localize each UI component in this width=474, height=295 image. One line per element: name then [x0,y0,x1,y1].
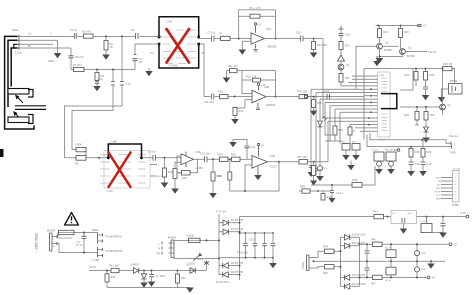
ground [231,119,239,124]
svg-text:GND: GND [48,59,54,63]
resistor R24 [424,72,428,81]
resistor R31 [173,169,177,179]
svg-text:Q3: Q3 [346,63,350,67]
svg-text:1.10A: 1.10A [15,51,22,55]
wire SIG line [370,133,451,143]
svg-text:U5B: U5B [270,154,275,158]
ground [342,155,350,160]
svg-text:R40: R40 [111,275,116,279]
deletion cross X1 [167,29,190,63]
svg-text:4700u 63V: 4700u 63V [237,253,249,255]
svg-text:R47: R47 [371,282,376,286]
module top ground arrow [376,56,378,61]
capacitor C26a [245,233,247,258]
svg-text:C16: C16 [345,33,350,37]
pin tick 1 [18,35,20,39]
connector shield tab [0,149,4,157]
svg-text:R24: R24 [430,73,435,77]
electrolytic C18 [410,147,412,149]
warning triangle [65,213,79,226]
resistor R47 [373,275,383,279]
ground [329,198,336,203]
rail 2 [400,106,439,108]
svg-text:C.1u: C.1u [372,148,378,152]
svg-text:D.TY 5A: D.TY 5A [216,210,226,214]
diode D10 [341,236,360,238]
svg-text:C.1u: C.1u [98,77,104,81]
svg-text:SIG out: SIG out [449,134,458,138]
feedback loop U5A [177,156,198,173]
capacitor C24 [245,146,250,148]
ground below U1 [148,68,150,71]
svg-text:LT 1u: LT 1u [76,243,83,247]
non-inverting network [237,100,252,108]
switch S1b bracket [28,115,33,124]
rail VDD right [413,68,455,70]
diode D2 [219,231,240,233]
wire Q4 collector [442,69,444,105]
resistor R18 on net a [352,183,362,188]
switch S1a bracket [28,90,33,98]
svg-text:24VAC: 24VAC [302,261,305,269]
ground [161,183,169,188]
diode D6 [424,127,429,132]
fuse F1 [58,233,59,237]
transistor Q3 [338,64,344,70]
regulator U6 box [391,211,417,224]
resistor R38 [312,166,316,176]
electrolytic bank C32 [386,250,396,258]
svg-text:Vout: Vout [407,212,412,215]
svg-text:R: R [353,129,355,133]
svg-text:TO HEATER B: TO HEATER B [105,249,122,253]
capacitor C6 series [111,82,115,86]
op-amp U5B [252,156,268,169]
ground [310,53,318,58]
fuse F2 [174,240,219,243]
svg-text:BC+R: BC+R [385,248,391,250]
resistor R15 [312,100,316,108]
diode D13 [341,285,360,287]
node M junction [212,158,214,160]
resistor R49 [322,191,324,194]
svg-text:C19: C19 [427,162,432,166]
svg-text:R3 2K2: R3 2K2 [73,63,82,67]
svg-text:MUTE: MUTE [435,192,442,194]
wire drop net d [324,102,326,135]
connector mains [50,233,53,251]
svg-text:R41 1W: R41 1W [109,264,119,268]
resistor R12 second row [242,79,276,81]
svg-text:R1 47K: R1 47K [82,30,91,34]
ground [310,111,318,116]
ground [171,189,179,194]
channel B amplifiers [142,140,329,199]
resistor R22 [339,74,343,83]
resistor R45 [314,267,341,268]
capacitor C34 [331,184,333,186]
terminal +35V [449,243,452,246]
svg-text:BP3M: BP3M [450,79,457,83]
non-inverting network [175,162,181,168]
svg-text:R23: R23 [404,73,409,77]
ground [272,258,274,263]
resistor R16b [349,125,351,127]
svg-text:C-H06: C-H06 [92,258,100,262]
wire from node D down [72,70,113,150]
switch S2 [174,253,219,258]
svg-text:R26: R26 [404,113,409,117]
svg-text:J-PLUG: J-PLUG [453,169,461,171]
svg-text:D12 BY255: D12 BY255 [352,273,366,277]
terminal +15V [417,24,419,27]
electrolytic bank C33 [416,244,418,277]
feedback loop U2A [239,10,276,39]
node O output junction [278,161,280,163]
non-inverting ground [242,41,251,49]
potentiometer P1 [72,150,86,158]
module outer box [364,69,413,140]
capacitor C15 polarized circle [319,146,321,166]
svg-text:GND: GND [450,151,456,155]
svg-text:C5-C8: C5-C8 [249,240,256,242]
resistor R7 [221,36,231,40]
ground [223,78,231,83]
svg-text:SDL: SDL [201,53,206,55]
U1 edge pin dots [158,36,161,39]
U1 box bottom [159,43,199,68]
transistor Q1 [377,43,383,49]
output run channel B [268,161,329,163]
terminal -35V [427,276,430,279]
svg-text:BC+R: BC+R [385,280,391,282]
supply cap C21 [386,152,396,161]
ground [422,95,430,100]
feedback loop U2B [242,71,276,97]
svg-text:R32: R32 [182,176,187,180]
signal direction arrow [305,95,309,99]
rectifier rail right [359,237,361,286]
wire U1 out to opamp [200,38,251,40]
capacitor C11 [211,94,214,100]
capacitor C23 [205,156,207,162]
svg-text:T63mA 250V: T63mA 250V [57,236,72,240]
RC network box 2 [352,144,360,151]
svg-text:D10 BY255: D10 BY255 [352,233,366,237]
connector 24VAC [307,255,310,271]
diode D9 [190,268,195,274]
svg-text:Ca 10u: Ca 10u [148,150,157,154]
svg-text:MAINS: MAINS [168,236,176,240]
dc rail top [240,216,375,218]
wire Q4 emitter [442,110,444,115]
svg-text:NE5532: NE5532 [266,103,276,107]
svg-text:GND: GND [436,188,441,190]
wire Q1 emitter to ground [380,50,403,56]
connector secondary [171,240,174,258]
IC U1 (deleted block, thick outline) [135,17,206,76]
output lines to rec connector [367,133,461,207]
channel A2 into op-amp U2B [200,44,364,124]
svg-text:2W06: 2W06 [452,203,459,207]
node N junction [229,158,231,160]
svg-text:R29: R29 [427,150,432,154]
wire Q1 collector to Q2 base [382,44,400,49]
svg-text:C18: C18 [415,162,420,166]
resistor R43 [374,214,384,218]
diode D1 [219,222,240,224]
capacitor C26b [254,233,256,258]
resistor R6 [65,157,109,159]
rectifier rails [219,214,240,280]
resistor R4 [95,73,99,81]
capacitor C7 [212,36,215,42]
capacitor C28 inside [402,218,405,223]
svg-text:D3 BYV95: D3 BYV95 [231,261,244,265]
capacitor C9 row [239,15,276,17]
svg-text:C2: C2 [131,28,135,32]
ground [439,233,447,238]
svg-text:R30: R30 [168,170,173,174]
svg-text:R44: R44 [323,245,328,249]
negative rail [360,276,428,278]
svg-text:VCC: VCC [436,195,441,197]
svg-text:C-A05: C-A05 [106,190,113,193]
diode D4 [219,274,240,276]
resistor R14 [299,94,308,98]
resistor R32 [182,171,191,175]
svg-text:N: N [158,247,160,251]
resistor R23 [414,72,418,81]
capacitor C16 [339,34,344,36]
svg-text:RC1: RC1 [342,142,347,144]
mute network wire [299,190,331,192]
capacitor C25 polarized [151,271,153,275]
svg-text:DC.1u: DC.1u [385,148,393,152]
svg-text:BC560: BC560 [407,54,415,58]
switch S1a wiper arrow [17,96,24,103]
capacitor C1 [74,33,76,39]
feedback loop U5B [229,159,231,172]
center tap wire [314,260,446,262]
node I output junction [275,96,277,98]
wire Q1 base feed [356,46,377,89]
svg-text:C-MB: C-MB [166,21,173,24]
svg-text:R13: R13 [239,109,244,113]
wire U1 left entry [158,36,163,38]
svg-text:REC: REC [436,178,441,180]
connector J1 input jack (thick outline) [0,28,46,157]
svg-text:R19: R19 [383,30,388,34]
svg-text:R46: R46 [371,238,376,242]
right side supply of U3 [400,62,462,143]
resistor R2 [104,41,108,51]
svg-text:1K: 1K [110,45,113,49]
resistor R20 [399,29,403,38]
cross link h [325,135,342,141]
svg-text:2200: 2200 [421,269,427,271]
resistor R1 [84,34,94,38]
wire stub pair to S1 [15,106,46,110]
rectifier rail left [340,237,342,286]
wire channel B rise [327,121,329,161]
node L junction [164,157,166,159]
svg-text:Ca.1u: Ca.1u [336,191,343,195]
ground [209,193,217,198]
svg-text:SDL: SDL [150,53,155,55]
svg-text:NF50: NF50 [12,28,19,32]
svg-text:LF356: LF356 [196,166,204,170]
svg-text:RC2: RC2 [352,142,357,144]
supply terminal [257,143,259,145]
pin junction dots [370,88,372,90]
svg-text:D1 BYV95: D1 BYV95 [231,218,244,222]
svg-text:Q2: Q2 [408,46,412,50]
top bias network [233,140,247,159]
IC U3 controller module [299,56,413,203]
node S junction [143,270,145,272]
wire drop net e [329,106,331,141]
resistor R35 [232,157,241,161]
svg-text:R7: R7 [219,32,223,36]
svg-text:C10: C10 [296,31,301,35]
capacitor C27b [272,233,274,258]
plus input stub [245,165,252,191]
node J junction [313,96,315,98]
capacitor C31 pair [366,244,368,277]
resistor R19 [378,29,382,38]
diode D12 [341,277,360,279]
svg-text:R37 100: R37 100 [297,155,307,159]
resistor R26 [415,112,419,121]
resistor R27 [424,112,428,121]
filter rail mid [219,233,273,258]
wire to opamp3 [142,157,182,159]
ground [422,138,430,143]
ground [54,53,62,58]
capacitor C2 [136,33,139,39]
terminal +15V out [466,215,469,218]
svg-text:C7 10u: C7 10u [207,31,216,35]
capacitor C4 polarized [134,61,136,70]
svg-text:DR02: DR02 [92,228,99,232]
svg-text:C-MB: C-MB [110,140,117,144]
wire lower run [84,69,135,71]
svg-text:R6: R6 [75,162,79,166]
U4 pin rows [100,155,146,183]
svg-text:R7 + 4.7K: R7 + 4.7K [249,6,261,10]
resistor R13 [233,107,237,115]
capacitor CX [83,233,85,237]
node input wire 2 [18,39,62,64]
ground [229,142,237,147]
node H junction [234,96,236,98]
star test point [206,266,208,271]
capacitor C3 [69,56,74,58]
svg-text:R12 C12: R12 C12 [246,75,257,79]
ground [400,229,408,234]
capacitor C13 polarized on bus [327,94,330,100]
capacitor C22 [153,155,155,161]
wire Q2 output [405,51,427,53]
resistor R41 [111,268,119,272]
node R junction [106,270,108,272]
pin tick 3 [18,46,20,50]
op-amp U2B [252,90,266,102]
svg-text:MAINS: MAINS [47,229,55,233]
IC U4 body (faint) [104,151,150,189]
electrolytic C19 [422,140,424,149]
wire aux chain [89,270,207,272]
mains input section [35,213,123,263]
svg-text:+15: +15 [261,83,266,87]
svg-text:R9 100K: R9 100K [317,43,327,47]
connector J2 multi pin [453,171,460,203]
node Q junction [83,232,85,234]
ground [442,89,449,97]
node A junction [105,35,107,37]
svg-text:R10: R10 [218,90,223,94]
svg-text:C3 47n: C3 47n [75,55,84,59]
positive rail [360,243,450,245]
pin 4 stub with decoupling [254,44,258,51]
secondary 24V rectifier grid [302,203,459,289]
IC U3 selection bracket (thick) [381,94,397,109]
resistor R33 [211,172,215,181]
node F output junction [275,38,277,40]
svg-text:C.1u: C.1u [125,82,131,86]
wire drop net g [339,112,341,143]
node input wire 1 [15,28,158,60]
capacitor C10 [301,36,303,42]
svg-text:R14 100: R14 100 [297,90,307,94]
svg-text:TL071: TL071 [270,165,278,169]
capacitor C27a [264,233,266,258]
resistor R21 [339,42,343,50]
node C junction [96,69,98,71]
U1 box top [159,17,199,39]
RC network box 1 [342,144,350,151]
svg-text:S201: S201 [189,262,196,266]
U1 internal pins [163,30,196,64]
wire output run channel A [266,96,364,98]
transistor Q2 [400,49,406,55]
resistor R36 [228,172,232,180]
ground [102,55,110,60]
pin stub below [256,103,260,110]
bias chain column [340,26,342,29]
output chain [194,158,253,160]
svg-text:R42: R42 [181,276,186,280]
svg-text:FL500: FL500 [187,234,195,238]
resistor R37 [299,160,308,164]
svg-text:R43: R43 [373,210,378,214]
svg-text:C+: C+ [324,166,328,170]
supply rail [376,25,418,27]
channel B section with deleted IC U4 [100,140,165,194]
capacitor C14 [314,169,318,171]
svg-text:P.50K: P.50K [75,143,82,147]
svg-text:AC IN: AC IN [89,265,96,269]
svg-text:C24: C24 [251,145,256,149]
svg-text:R36: R36 [217,174,222,178]
wire connector vertical 1 [5,36,34,129]
node G junction [313,38,315,40]
wire to battery [452,69,455,84]
pin wires group [311,76,378,131]
svg-text:R25 7W: R25 7W [443,62,453,66]
channel A into op-amp U2A [200,6,327,118]
